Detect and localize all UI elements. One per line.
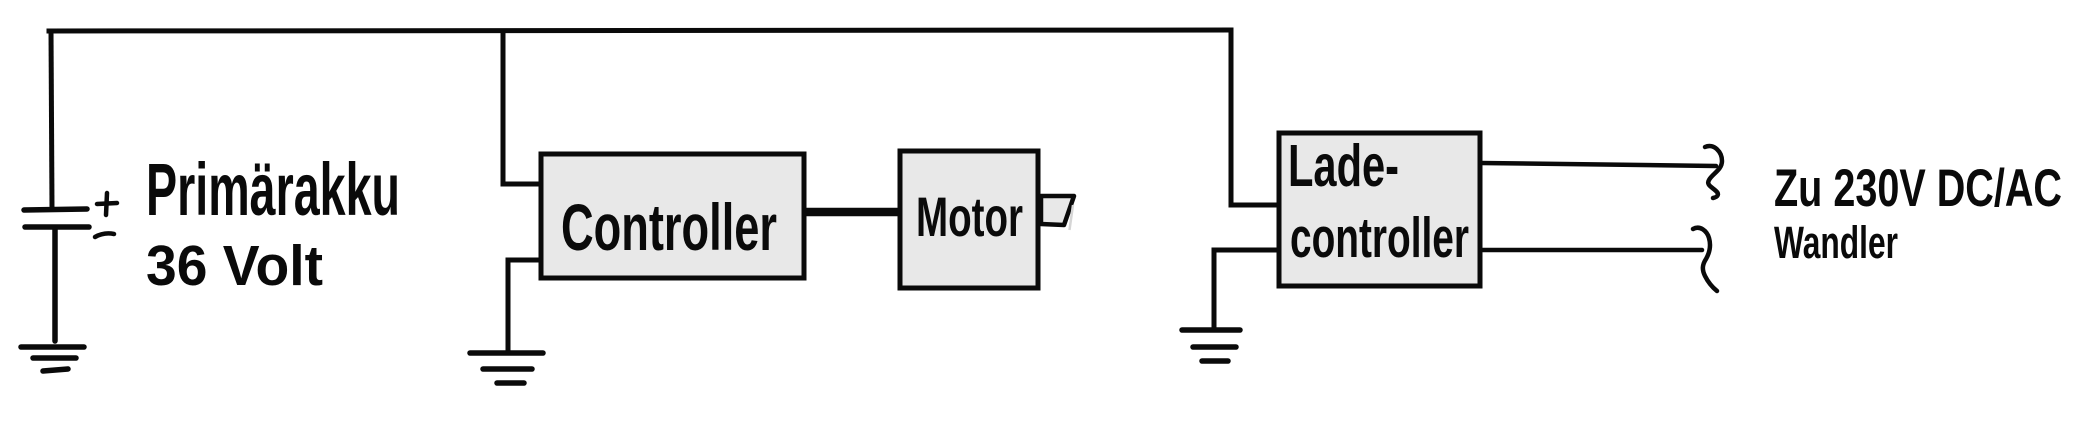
wire: AC output top	[1481, 163, 1716, 166]
svg-text:Zu 230V DC/AC: Zu 230V DC/AC	[1774, 159, 2062, 218]
battery B1 (36V primary)	[24, 209, 89, 341]
svg-text:Wandler: Wandler	[1774, 217, 1898, 268]
svg-text:Controller: Controller	[561, 190, 777, 264]
battery plus label	[97, 193, 117, 215]
connector squiggle: bottom	[1693, 228, 1717, 291]
wire: controller feed drop	[503, 31, 540, 184]
svg-text:Primärakku: Primärakku	[146, 148, 400, 231]
wire: AC output bottom	[1481, 248, 1702, 253]
wire: lade-controller ground lead	[1214, 250, 1279, 330]
motor shaft	[1041, 196, 1074, 225]
wire: motor drive (thick)	[806, 208, 898, 217]
connector squiggle: top	[1705, 146, 1722, 198]
motor shaft sketch stray line	[1070, 205, 1074, 230]
ground: lade-controller	[1182, 330, 1240, 361]
svg-text:36 Volt: 36 Volt	[146, 234, 323, 298]
lade-controller box U2	[1279, 133, 1480, 286]
motor box M1	[900, 151, 1038, 288]
svg-text:controller: controller	[1290, 206, 1469, 270]
wire: lade-controller feed drop	[1231, 30, 1278, 205]
controller box U1	[541, 154, 804, 278]
wire: top supply bus	[49, 30, 1231, 31]
wire: battery positive lead	[51, 31, 52, 208]
battery minus label	[95, 233, 114, 237]
wire: controller ground lead	[508, 260, 541, 352]
ground: controller	[470, 353, 543, 383]
svg-text:Motor: Motor	[916, 185, 1023, 248]
ground: battery	[21, 347, 84, 371]
svg-text:Lade-: Lade-	[1288, 133, 1399, 199]
